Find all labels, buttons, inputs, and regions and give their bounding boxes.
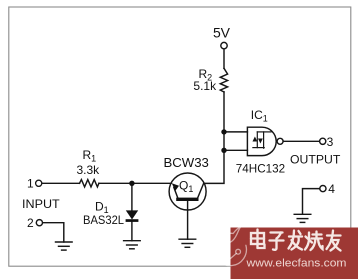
Q1 emitter arrow xyxy=(172,183,179,191)
node 4 terminal circle xyxy=(320,186,326,192)
svg-text:R1: R1 xyxy=(83,148,97,164)
Q1 collector lead xyxy=(198,184,204,198)
wire D1 anode xyxy=(131,183,133,211)
schmitt arrows xyxy=(252,137,257,142)
node 3 terminal circle xyxy=(320,138,326,144)
友 xyxy=(327,231,341,251)
Q1 base lead down xyxy=(187,201,189,239)
node 2 terminal circle xyxy=(36,220,42,226)
wire R1 to Q1 xyxy=(99,182,171,184)
Q1 emitter lead xyxy=(174,188,178,199)
Q1 base bar xyxy=(176,198,198,201)
svg-text:3.3k: 3.3k xyxy=(77,163,101,177)
junction dot IC input A xyxy=(221,129,226,134)
wire Q1 collector to rail xyxy=(204,92,224,183)
diode D1 triangle xyxy=(126,210,138,219)
ground under node4 xyxy=(294,213,311,215)
svg-text:www.elecfans.com: www.elecfans.com xyxy=(245,257,346,269)
wire node2 to ground xyxy=(43,223,64,242)
子 xyxy=(270,233,284,250)
svg-text:BAS32L: BAS32L xyxy=(83,213,124,227)
IC1 input stub A xyxy=(224,131,247,133)
svg-text:1: 1 xyxy=(27,177,34,191)
svg-text:OUTPUT: OUTPUT xyxy=(290,153,341,167)
resistor R1 xyxy=(80,180,99,187)
IC1 input stub B xyxy=(224,149,247,151)
电 xyxy=(251,230,265,249)
diode D1 cathode bar xyxy=(126,219,139,222)
svg-text:74HC132: 74HC132 xyxy=(236,162,286,176)
wire node4 to ground xyxy=(303,189,320,215)
wire D1 cathode to ground xyxy=(131,222,133,241)
svg-text:5V: 5V xyxy=(213,25,231,41)
watermark red box xyxy=(231,228,358,279)
node 1 terminal circle xyxy=(36,180,42,186)
svg-text:IC1: IC1 xyxy=(251,108,268,124)
transistor Q1 circle xyxy=(169,173,206,210)
wire bubble to node3 xyxy=(283,140,319,142)
svg-text:4: 4 xyxy=(328,182,335,196)
svg-text:Q1: Q1 xyxy=(179,179,193,195)
svg-text:3: 3 xyxy=(327,135,334,149)
5V terminal circle xyxy=(221,42,227,48)
junction dot at R1/D1 xyxy=(129,181,134,186)
resistor R2 xyxy=(220,68,227,92)
schmitt trigger symbol xyxy=(253,132,271,148)
wire R2 to 5V xyxy=(223,49,225,68)
watermark chinese text 电子发烧友 xyxy=(251,230,341,251)
wire node1 to R1 xyxy=(42,182,79,184)
ground under node2 xyxy=(56,241,73,243)
svg-text:BCW33: BCW33 xyxy=(164,156,209,170)
watermark logo xyxy=(214,227,246,266)
发 xyxy=(289,231,303,250)
junction dot IC input B xyxy=(221,148,226,153)
ground under Q1 xyxy=(179,238,196,240)
svg-text:5.1k: 5.1k xyxy=(193,79,217,93)
nand gate IC1 body xyxy=(247,127,276,155)
svg-text:2: 2 xyxy=(27,216,34,230)
svg-text:INPUT: INPUT xyxy=(22,197,60,211)
output bubble xyxy=(277,138,283,144)
ground under D1 xyxy=(124,240,141,242)
烧 xyxy=(305,232,323,251)
